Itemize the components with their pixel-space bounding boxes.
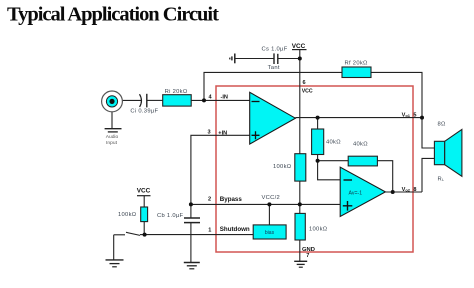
svg-text:Bypass: Bypass [220,196,243,203]
svg-text:Vo1: Vo1 [402,112,411,118]
svg-text:7: 7 [306,253,309,259]
svg-text:VCC/2: VCC/2 [262,195,281,201]
svg-text:+IN: +IN [218,131,227,137]
svg-text:Shutdown: Shutdown [220,226,250,233]
svg-text:bias: bias [265,230,275,236]
svg-text:Ci 0.39µF: Ci 0.39µF [130,108,158,114]
svg-text:100kΩ: 100kΩ [273,164,292,170]
svg-text:8: 8 [413,187,416,193]
svg-text:Vo2: Vo2 [402,187,411,193]
svg-text:Tant: Tant [268,65,280,71]
svg-text:2: 2 [208,197,211,203]
svg-text:Ri 20kΩ: Ri 20kΩ [165,89,188,95]
svg-text:Cb 1.0µF: Cb 1.0µF [157,213,184,219]
svg-text:Av=-1: Av=-1 [349,191,363,197]
svg-text:5: 5 [413,112,416,118]
svg-text:6: 6 [303,80,306,86]
svg-text:1: 1 [208,227,211,233]
svg-text:VCC: VCC [302,89,313,95]
svg-text:Input: Input [106,140,118,146]
svg-text:-IN: -IN [221,94,228,100]
svg-text:RL: RL [438,176,445,182]
svg-text:100kΩ: 100kΩ [118,212,137,218]
svg-text:8Ω: 8Ω [438,121,447,127]
svg-text:VCC: VCC [137,188,151,195]
svg-text:Typical Application Circuit: Typical Application Circuit [7,4,219,26]
svg-text:GND: GND [302,247,315,253]
svg-text:VCC: VCC [292,43,306,50]
svg-text:Cs 1.0µF: Cs 1.0µF [262,47,288,53]
svg-text:Rf 20kΩ: Rf 20kΩ [345,60,369,66]
svg-text:3: 3 [208,130,211,136]
svg-text:Audio: Audio [106,134,119,140]
svg-text:100kΩ: 100kΩ [309,226,328,232]
svg-text:40kΩ: 40kΩ [326,139,341,145]
svg-text:40kΩ: 40kΩ [353,141,368,147]
